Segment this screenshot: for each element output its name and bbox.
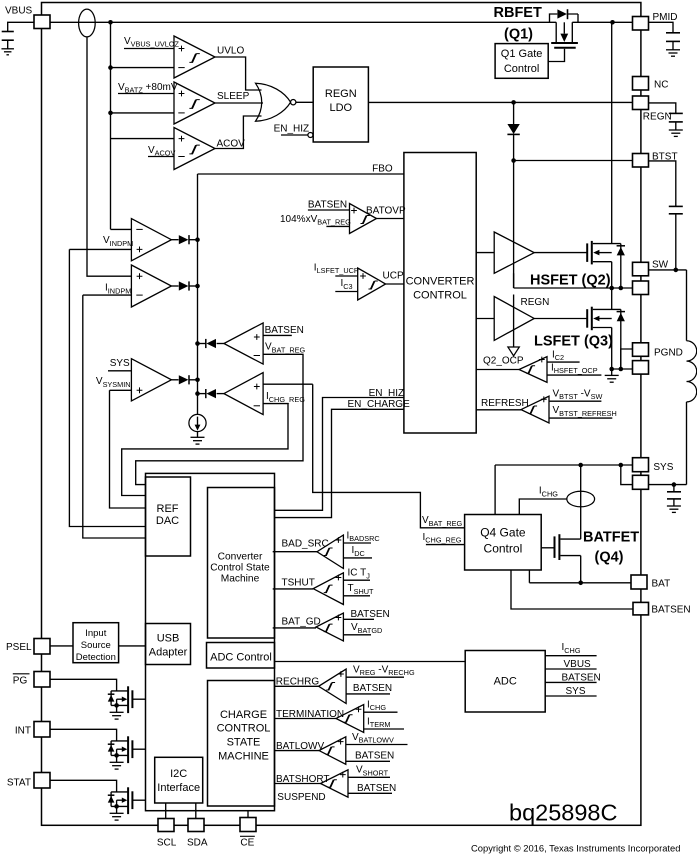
capacitor at REGN [669,112,683,114]
wire BTST net [514,160,633,162]
node Q3 body diode at PGND [619,367,624,372]
wire ACOV minus input [148,156,174,158]
diode at VBAT_REG output [217,343,224,345]
svg-text:BATSEN: BATSEN [357,783,396,794]
wire TSHUT plus input [343,579,370,581]
ground at PG FET [116,705,118,712]
pin PG [34,672,50,688]
svg-text:bq25898C: bq25898C [509,800,617,826]
wire RECHRG plus input [346,676,404,678]
wire BATOVP output [377,218,404,220]
wire BTST pin to bootstrap cap [649,161,676,206]
amplifier IINDPM [131,265,171,307]
wire Q2_OCP plus input [547,361,580,363]
wire I2C SCL [165,803,167,819]
wire TSHUT minus input [343,595,370,597]
wire SLEEP output to NOR gate [215,102,263,104]
node SYS external [672,482,677,487]
wire ADC ICHG output [545,655,596,657]
wire SW pin to inductor [649,269,687,271]
bubble EN_HIZ input [308,133,313,138]
wire IINDPM minus from REF DAC [83,295,146,538]
capacitor at PMID [666,32,680,34]
svg-text:RBFET: RBFET [494,5,542,21]
pin STAT [34,773,50,789]
wire TERMINATION output [275,718,337,720]
body diode Q3 [620,309,622,369]
wire PG to open-drain FET [50,679,117,691]
svg-text:Control: Control [484,542,523,556]
transistor STAT open-drain FET [111,791,128,793]
wire REFRESH plus input [549,400,601,402]
wire current sense to IINDPM plus [87,37,131,276]
wire SW node [514,287,633,289]
pin SW lower [633,281,649,295]
wire VSYSMIN plus from REF DAC [110,390,146,508]
amplifier ICHG_REG [224,373,263,415]
pin BAT [631,575,647,589]
wire BATOVP minus input [326,225,349,227]
block Q4 Gate Control [465,515,542,571]
wire SYS to Q4 drain [580,465,582,539]
node SW external [674,268,679,273]
wire SYS rail [495,465,632,515]
svg-text:REF: REF [157,503,179,515]
node ICHG_REG on bus [195,391,200,396]
ground at SYS cap [667,505,681,507]
capacitor VBUS input [2,31,14,33]
svg-text:BATFET: BATFET [583,530,639,546]
wire PGND node [612,368,633,370]
wire SYS input [108,370,131,372]
comparator ACOV [174,128,215,170]
diode at VINDPM output [171,239,178,241]
svg-text:(Q1): (Q1) [504,27,533,43]
transistor PG open-drain FET [111,690,128,692]
ground at PMID cap [666,49,680,51]
svg-text:REGN: REGN [521,297,550,308]
transistor INT open-drain FET [111,740,128,742]
pin REGN [633,96,649,110]
wire ADC BATSEN output [545,681,596,683]
comparator BATOVP [350,204,377,234]
block ADC [465,651,545,713]
wire HSFET driver source reference [513,273,515,288]
node VSYSMIN on bus [195,378,200,383]
block Charge Control State Machine [208,681,275,807]
node REGN to bootstrap diode [511,100,516,105]
comparator BATSHORT [321,770,349,797]
wire RECHRG output [275,685,319,687]
svg-text:FBO: FBO [372,164,393,175]
transistor HSFET Q2 [586,243,588,262]
svg-text:BAT: BAT [652,579,671,590]
wire LSFET gate [534,318,587,320]
ground at STAT FET [116,806,118,813]
svg-text:LDO: LDO [329,102,352,114]
svg-text:MACHINE: MACHINE [218,751,269,763]
svg-text:Converter: Converter [218,552,263,563]
svg-text:Q1 Gate: Q1 Gate [501,48,543,60]
wire BAT net [529,582,631,584]
pin PSEL [34,639,50,655]
comparator UCP [358,268,386,300]
wire ACOV plus input [111,138,175,140]
wire input source detection to USB adapter [119,645,146,647]
wire Q2_OCP minus input [547,374,601,376]
body diode INT FET [110,741,112,756]
svg-text:SLEEP: SLEEP [217,91,250,102]
wire BAD_SRC minus input [343,557,372,559]
amplifier VSYSMIN [131,359,171,401]
comparator BAD_SRC [317,535,343,569]
wire BAD_SRC output [273,551,317,553]
svg-text:DAC: DAC [156,515,179,527]
svg-text:CONVERTER: CONVERTER [406,276,475,288]
wire REFRESH output [476,409,521,411]
wire REFRESH minus input [549,417,612,419]
wire RECHRG minus input [346,693,390,695]
wire Q1 gate [548,49,564,62]
svg-text:REGN: REGN [643,112,672,123]
wire UCP output [386,283,404,285]
transistor BATFET Q4 [541,547,554,549]
capacitor at SYS [673,485,675,492]
wire SLEEP plus input [118,93,174,95]
comparator BAT_GD [316,613,343,641]
svg-text:PSEL: PSEL [6,642,32,653]
current sense ellipse ICHG [567,491,595,507]
wire UVLO output to NOR gate [215,57,262,90]
svg-text:CONTROL: CONTROL [217,723,271,735]
svg-text:PGND: PGND [654,348,683,359]
substrate arrow PG FET [116,699,118,705]
svg-text:BAD_SRC: BAD_SRC [282,539,329,550]
wire PMID to cap [649,22,674,32]
pin SW upper [633,262,649,276]
pin PMID [633,17,649,31]
wire TERMINATION plus input [364,711,398,713]
svg-text:INT: INT [15,726,31,737]
svg-text:BATSEN: BATSEN [355,751,394,762]
wire Q2_OCP output [476,369,519,371]
wire EN_CHARGE net [275,409,404,517]
block USB Adapter [146,624,191,665]
overline PG [13,673,30,675]
wire ICHG_REG stub at Q4 [426,544,465,546]
wire internal reference bus [197,174,199,414]
wire Q2 drain to VBUS [611,22,613,243]
wire VBUS rail [50,21,556,23]
wire PSEL to input source detection [50,645,73,647]
block ADC Control [207,643,275,669]
svg-text:Source: Source [81,640,111,651]
block REF DAC [146,477,191,556]
current source at reference bus [189,414,206,431]
wire VBAT_REG to REF DAC [136,354,303,484]
wire STAT to open-drain FET [50,780,117,792]
svg-text:BATSEN: BATSEN [308,200,347,211]
wire UVLO plus input [124,48,174,50]
wire BATSHORT plus input [348,776,390,778]
wire ICHG_REG minus to REF DAC [122,404,288,496]
body diode STAT FET [110,792,112,807]
capacitor bootstrap BTST-SW [669,205,683,207]
pin BTST [633,154,649,168]
svg-text:BAT_GD: BAT_GD [282,617,321,628]
amplifier VBAT_REG [224,323,263,364]
svg-text:Input: Input [85,628,106,639]
svg-text:ADC: ADC [494,676,517,688]
block REGN LDO [313,67,368,142]
comparator UVLO [174,36,215,78]
wire inductor top lead [686,270,688,341]
svg-text:UVLO: UVLO [217,46,244,57]
svg-text:LSFET (Q3): LSFET (Q3) [534,334,613,350]
wire VBUS internal rail right segment [572,21,632,23]
comparator Q2_OCP [519,357,547,383]
diode at IINDPM output [171,285,178,287]
wire HSFET gate [534,252,587,254]
svg-text:BATSEN: BATSEN [351,609,390,620]
wire STAT FET gate [132,799,145,801]
wire VINDPM minus input [111,228,132,230]
pin SYS upper [633,458,649,472]
svg-text:Control State: Control State [210,563,270,574]
node IINDPM on bus [195,284,200,289]
node VINDPM on bus [195,237,200,242]
wire EN_HIZ stub [281,134,308,136]
pin PGND upper [633,343,649,357]
node VBUS to HSFET drain [610,20,615,25]
block Q1 Gate Control [495,44,548,79]
wire SLEEP minus input [111,112,175,114]
svg-text:UCP: UCP [383,271,404,282]
inductor L1 [687,341,697,402]
svg-text:Adapter: Adapter [149,647,188,659]
wire BAT_GD plus input [343,618,374,620]
svg-text:USB: USB [157,633,180,645]
wire SYS pin to output cap [649,484,687,486]
pin BATSEN [633,602,649,615]
svg-text:CONTROL: CONTROL [413,290,467,302]
wire UCP minus input [335,291,357,293]
svg-text:SW: SW [652,260,669,271]
wire ICHG_REG plus to Q4 gate control [263,384,465,528]
svg-text:EN_HIZ: EN_HIZ [274,124,310,135]
wire VBUS pin to input cap [8,22,34,31]
node SYS lower pin tap [619,463,624,468]
wire BATLOWV minus input [346,760,390,762]
node Q2 body diode at SW [619,286,624,291]
svg-text:SDA: SDA [187,838,208,849]
driver HSFET gate driver [494,232,534,273]
svg-text:BATSEN: BATSEN [651,605,690,616]
driver LSFET gate driver [494,297,534,341]
svg-text:STAT: STAT [7,778,31,789]
node VBAT_REG on bus [195,341,200,346]
svg-text:Control: Control [504,63,539,75]
node HSFET source at SW [609,286,614,291]
pin NC [633,77,649,91]
wire inductor bottom lead [686,402,688,485]
wire REGN output to REGN pin [368,101,632,103]
wire UCP plus input [335,275,357,277]
wire UVLO minus input [111,67,175,69]
transistor LSFET Q3 [586,309,588,328]
wire ADC control to ADC [275,661,466,663]
body diode PG FET [110,691,112,706]
wire INT to open-drain FET [50,729,117,741]
wire I2C SDA [195,803,197,819]
svg-text:REFRESH: REFRESH [481,398,529,409]
wire BTST to HSFET driver supply [513,161,515,289]
svg-text:I2C: I2C [170,768,187,780]
wire TERMINATION minus input [364,728,404,730]
block CONVERTER CONTROL [404,153,476,434]
wire PGND upper pin jog [621,349,633,369]
wire Q4 box to BATSEN net [511,570,634,609]
node INT FET source [114,753,119,758]
node STAT FET source [114,804,119,809]
svg-text:BATSEN: BATSEN [265,325,304,336]
wire BATLOWV output [275,750,320,752]
wire BATSEN stub input [263,334,292,336]
node Q3 source at PGND [609,367,614,372]
node SYS to BATFET [578,463,583,468]
wire PG FET gate [132,698,145,700]
svg-text:SYS: SYS [653,462,673,473]
svg-text:CHARGE: CHARGE [220,709,267,721]
wire BATOVP plus input [308,209,350,211]
wire BAT_GD minus input [343,634,371,636]
svg-text:EN_CHARGE: EN_CHARGE [348,399,411,410]
svg-text:TSHUT: TSHUT [282,578,315,589]
overline CE [240,835,255,837]
wire BATSHORT output [275,783,321,785]
wire ADC SYS output [545,695,596,697]
diode REGN to BTST [513,102,515,124]
pin CE [240,818,256,832]
wire VINDPM plus from REF DAC [69,249,145,526]
wire CE to digital core [247,811,249,818]
wire VBUS sense column [110,22,112,229]
wire TSHUT output [273,588,314,590]
svg-text:SYS: SYS [110,358,130,369]
svg-text:SCL: SCL [157,838,177,849]
NOR gate U1 [256,83,291,121]
svg-text:CE: CE [240,838,254,849]
diode at VSYSMIN output [171,379,178,381]
arrow LSFET driver return [508,347,519,356]
svg-text:PG: PG [13,676,28,687]
wire ADC VBUS output [545,668,596,670]
wire REGN supply to LSFET driver [513,295,515,348]
svg-text:BATOVP: BATOVP [366,206,406,217]
substrate arrow STAT FET [116,800,118,806]
comparator SLEEP [174,82,215,124]
svg-text:Copyright © 2016, Texas Instru: Copyright © 2016, Texas Instruments Inco… [471,843,680,854]
pin SDA [188,819,204,832]
comparator TSHUT [313,573,343,605]
comparator TERMINATION [336,705,364,733]
svg-text:STATE: STATE [227,737,261,749]
svg-text:VBUS: VBUS [5,6,33,17]
wire NOR output to REGN LDO [296,101,313,103]
wire FBO [198,173,404,175]
wire SYS lower pin jog [621,465,633,485]
wire converter to LSFET driver [476,318,494,320]
comparator REFRESH [521,396,549,423]
ground at VBUS cap [1,48,14,50]
current sense ellipse on VBUS rail [79,9,96,37]
svg-text:PMID: PMID [653,12,678,23]
node VBUS sense junction [108,20,113,25]
node Q4 source at BAT [578,581,583,586]
svg-text:SUSPEND: SUSPEND [277,792,325,803]
transistor RBFET Q1 [550,14,558,22]
diode at ICHG_REG output [217,393,224,395]
body diode Q2 [620,244,622,288]
ground at LSFET source [611,369,613,375]
svg-text:ADC Control: ADC Control [210,652,272,664]
pin INT [34,722,50,738]
svg-text:REGN: REGN [325,88,357,100]
svg-text:(Q4): (Q4) [595,550,624,566]
wire Q4 box to BAT net [528,570,530,583]
svg-text:NC: NC [654,80,668,91]
svg-text:BATSEN: BATSEN [353,683,392,694]
svg-text:Machine: Machine [221,574,260,585]
svg-text:Detection: Detection [76,652,116,663]
comparator BATLOWV [319,737,346,765]
substrate arrow INT FET [116,749,118,755]
pin SYS lower [633,475,649,489]
pin PGND lower [633,361,649,375]
amplifier VINDPM [131,219,171,261]
pin VBUS [34,15,50,29]
pin SCL [158,819,174,832]
ground at current source [191,436,205,438]
wire INT FET gate [132,748,145,750]
wire Q3 drain to SW [611,288,613,309]
wire BAT_GD output [273,627,316,629]
wire REGN pin to cap [649,103,676,113]
wire ACOV output to NOR gate [215,116,262,149]
block Input Source Detection [73,623,119,663]
svg-text:Q2_OCP: Q2_OCP [483,356,524,367]
svg-text:Q4 Gate: Q4 Gate [480,526,526,540]
comparator RECHRG [319,669,347,703]
ground at REGN cap [669,129,683,131]
wire BATSHORT minus input [348,792,392,794]
svg-text:HSFET (Q2): HSFET (Q2) [530,273,611,289]
block Converter Control State Machine [208,488,275,639]
block I2C Interface [155,757,203,803]
wire BATLOWV plus input [346,744,408,746]
wire EN_HIZ net [275,398,404,511]
wire converter to HSFET driver [476,252,494,254]
wire BAD_SRC plus input [343,542,371,544]
svg-text:Interface: Interface [157,782,200,794]
ground at INT FET [116,755,118,762]
block digital core outline [146,473,275,810]
wire ICHG sense to Q4 gate control [519,499,567,515]
node PG FET source [114,703,119,708]
